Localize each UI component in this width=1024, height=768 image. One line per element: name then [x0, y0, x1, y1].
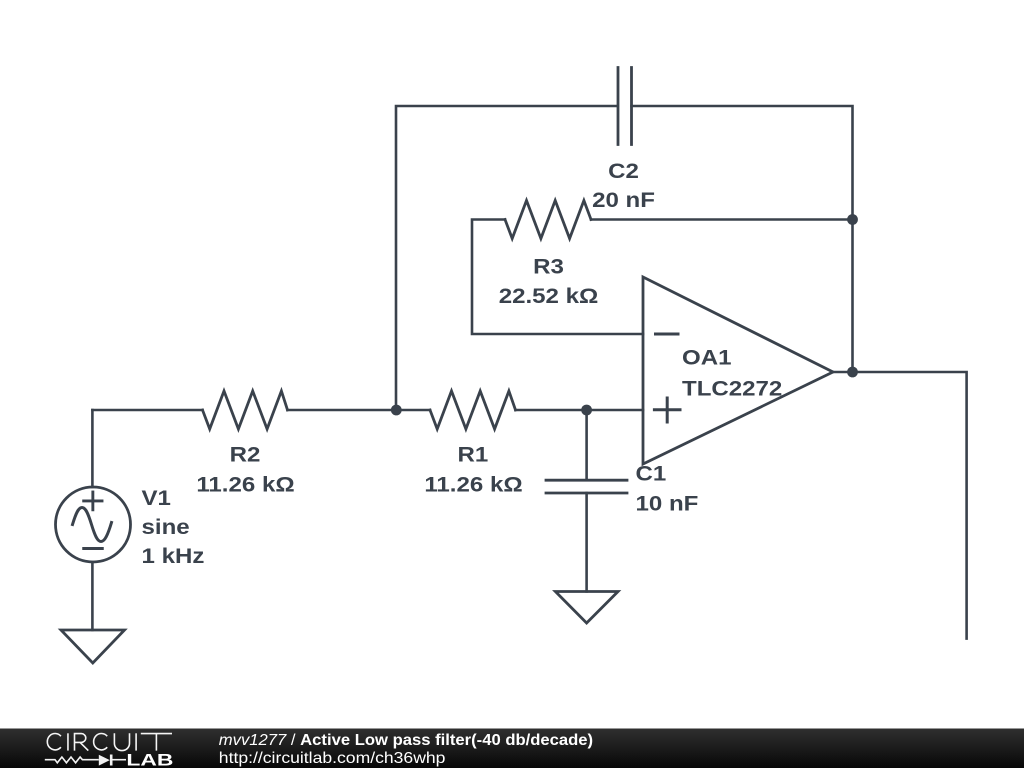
wire: op-amp output: [833, 372, 967, 639]
op-amp OA1: [643, 277, 833, 464]
svg-text:R3: R3: [533, 254, 564, 278]
resistor R3: [505, 201, 591, 239]
op-amp minus pin mark: [656, 333, 679, 336]
svg-text:sine: sine: [142, 514, 190, 538]
svg-text:V1: V1: [142, 485, 172, 509]
logo CIRCUIT word: [47, 733, 172, 750]
ground (C1): [555, 592, 618, 624]
svg-text:R2: R2: [230, 442, 261, 466]
svg-text:1 kHz: 1 kHz: [142, 543, 205, 567]
svg-text:mvv1277 / Active Low pass filt: mvv1277 / Active Low pass filter(-40 db/…: [219, 731, 593, 749]
junction output dot: [847, 367, 858, 378]
junction node C1/+ dot: [581, 405, 592, 416]
svg-text:11.26 kΩ: 11.26 kΩ: [424, 472, 522, 496]
svg-text:TLC2272: TLC2272: [682, 376, 782, 400]
logo resistor-diode line: [45, 755, 126, 766]
wire: R2 to node A: [288, 409, 431, 412]
wire: node A to C1: [585, 410, 588, 480]
logo diode triangle: [99, 755, 110, 766]
wire: R3 left vertical: [472, 220, 643, 335]
op-amp plus pin mark: [654, 398, 680, 422]
wire: R3 to feedback node: [591, 218, 853, 221]
wire: main input wire V1 to R2: [92, 409, 202, 412]
capacitor C2: [618, 68, 632, 145]
banner background: [0, 729, 1024, 768]
svg-text:11.26 kΩ: 11.26 kΩ: [196, 472, 294, 496]
ground (V1): [61, 630, 125, 663]
svg-text:22.52 kΩ: 22.52 kΩ: [499, 283, 599, 307]
resistor R2: [203, 391, 288, 429]
svg-text:C1: C1: [636, 461, 667, 485]
junction node A dot: [391, 405, 402, 416]
wire: R1 to op-amp + input: [516, 409, 644, 412]
wire: V1 bottom lead: [91, 562, 94, 630]
resistor R1: [430, 391, 516, 429]
svg-text:LAB: LAB: [126, 751, 173, 768]
wire: C1 to ground: [585, 493, 588, 592]
svg-text:OA1: OA1: [682, 345, 732, 369]
wire: V1 top lead: [91, 410, 94, 487]
junction feedback R3 dot: [847, 214, 858, 225]
svg-text:C2: C2: [608, 158, 639, 182]
svg-text:10 nF: 10 nF: [636, 491, 699, 515]
svg-text:http://circuitlab.com/ch36whp: http://circuitlab.com/ch36whp: [219, 749, 446, 767]
wire: top feedback left segment: [396, 106, 617, 410]
wire: top feedback right segment: [632, 106, 853, 372]
capacitor C1: [546, 480, 627, 493]
voltage source V1: [56, 487, 131, 562]
svg-text:R1: R1: [458, 442, 489, 466]
svg-text:20 nF: 20 nF: [592, 187, 655, 211]
